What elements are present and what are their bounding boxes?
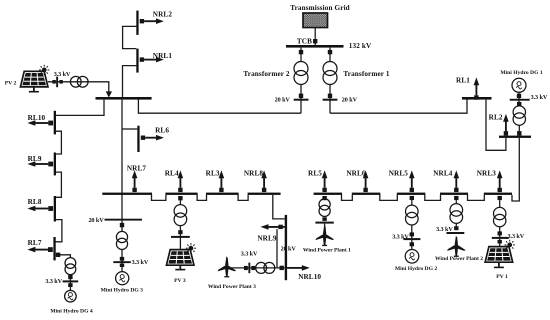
- feeder bus RL4: [165, 193, 197, 195]
- PV 1 stand: [498, 262, 500, 267]
- PV 2 sun: [39, 65, 49, 75]
- wire RL1 bus to RL2 bus: [486, 100, 506, 151]
- wire RL2 bus to NRL3 bus: [512, 138, 519, 201]
- svg-text:RL4: RL4: [165, 170, 179, 178]
- generator Mini Hydro DG 1: [512, 78, 526, 92]
- feeder wire T1 to RL1 bus: [330, 99, 467, 114]
- feeder bus RL3: [206, 193, 239, 195]
- load arrow NRL2: [140, 18, 164, 24]
- svg-text:PV 2: PV 2: [5, 80, 17, 86]
- feeder wire T2 to left main bus: [138, 99, 301, 114]
- svg-text:TCB: TCB: [297, 38, 312, 46]
- wire transformer 1 secondary: [329, 85, 331, 114]
- feeder bus NRL5: [397, 193, 426, 195]
- load arrow NRL7: [132, 170, 138, 192]
- svg-text:NRL9: NRL9: [257, 235, 277, 243]
- feeder bus NRL8: [248, 193, 281, 195]
- load arrow RL1: [474, 77, 480, 99]
- svg-text:RL5: RL5: [308, 170, 322, 178]
- wire PV3 transformer to panel: [179, 226, 181, 250]
- wire DG4 transformer to generator: [69, 275, 71, 291]
- transmission grid block: [303, 13, 328, 28]
- PV 2 stand: [33, 87, 35, 91]
- load arrow RL2: [503, 114, 509, 136]
- riser main bus to DG3: [121, 100, 123, 232]
- svg-text:3.3 kV: 3.3 kV: [54, 71, 71, 78]
- breaker DG4 3.3 kV: [63, 275, 79, 287]
- svg-text:RL8: RL8: [28, 198, 42, 206]
- transformer PV3: [174, 205, 187, 218]
- breaker on transformer 2 primary: [299, 50, 303, 54]
- svg-text:Mini Hydro DG 2: Mini Hydro DG 2: [395, 266, 438, 272]
- breaker DG1 3.3 kV: [510, 94, 530, 106]
- svg-text:NRL8: NRL8: [244, 170, 264, 178]
- bus RL1: [462, 97, 492, 100]
- svg-text:NRL6: NRL6: [346, 170, 366, 178]
- svg-text:20 kV: 20 kV: [275, 97, 291, 104]
- svg-text:RL7: RL7: [28, 239, 42, 247]
- transformer wind3: [256, 262, 267, 273]
- svg-text:Mini Hydro DG 3: Mini Hydro DG 3: [101, 287, 144, 293]
- bus NRL2: [136, 11, 138, 35]
- breaker DG1 at RL2 bus: [517, 131, 521, 135]
- wire grid to bus: [314, 28, 316, 46]
- wire DG2 transformer to generator: [411, 225, 413, 250]
- PV 2 panel: [20, 71, 48, 87]
- breaker wind2 top: [454, 196, 458, 200]
- wire RL5 bus to NRL6 bus: [342, 194, 353, 200]
- bus RL6: [137, 126, 139, 152]
- wire bus to transformer 1: [329, 48, 331, 62]
- wire RL4 bus to PV3 transformer: [179, 200, 181, 204]
- wire RL7 to DG4 transformer: [56, 255, 71, 258]
- breaker PV2 3.3 kV: [52, 77, 62, 88]
- wire NRL4 bus to NRL3 bus: [468, 194, 485, 200]
- load arrow RL9: [27, 161, 53, 167]
- svg-text:20 kV: 20 kV: [281, 246, 297, 253]
- transformer Wind Power Plant 1: [319, 199, 330, 210]
- generator Mini Hydro DG 4: [65, 290, 77, 302]
- svg-text:NRL5: NRL5: [389, 170, 409, 178]
- wire wind2: [455, 200, 457, 204]
- svg-text:Transformer 2: Transformer 2: [243, 70, 289, 78]
- svg-text:NRL4: NRL4: [433, 170, 453, 178]
- svg-text:RL2: RL2: [489, 113, 503, 121]
- 20 kV bar under transformer 1: [323, 99, 338, 101]
- generator Mini Hydro DG 3: [116, 272, 129, 285]
- infeed triangle at main bus: [106, 91, 112, 97]
- load arrow NRL6: [363, 170, 369, 192]
- load arrow NRL3: [497, 170, 503, 192]
- svg-text:3.3 kV: 3.3 kV: [241, 251, 258, 258]
- svg-text:NRL3: NRL3: [477, 170, 497, 178]
- PV 3 sun: [186, 243, 196, 253]
- 20 kV vertical bus: [285, 215, 287, 280]
- wire DG3 transformer to generator: [121, 250, 123, 272]
- svg-text:RL1: RL1: [456, 77, 470, 85]
- svg-text:PV 3: PV 3: [174, 278, 186, 284]
- wire PV1: [499, 200, 501, 208]
- transformer Wind Power Plant 2: [450, 204, 463, 217]
- wire PV2 to transformer: [48, 82, 109, 92]
- transformer DG3: [116, 231, 127, 242]
- load arrow RL5: [322, 170, 328, 192]
- breaker at 20kV bus wind3: [280, 266, 284, 270]
- wire RL8 to RL7: [55, 220, 62, 242]
- breaker DG2 3.3 kV: [403, 232, 420, 246]
- bus RL8: [54, 196, 56, 222]
- bus RL10: [54, 111, 56, 135]
- svg-text:Mini Hydro DG 4: Mini Hydro DG 4: [50, 308, 93, 314]
- svg-text:20 kV: 20 kV: [88, 217, 104, 224]
- svg-text:3.3 kV: 3.3 kV: [531, 94, 548, 101]
- breaker PV3 top: [178, 196, 182, 200]
- load arrow RL3: [219, 170, 225, 192]
- wire DG1 transformer to RL2 bus: [518, 125, 520, 135]
- breaker wind1 bottom: [315, 217, 333, 223]
- wire DG2: [411, 200, 413, 205]
- wire wind2 to transformer: [455, 223, 457, 226]
- svg-text:3.3 kV: 3.3 kV: [436, 226, 453, 233]
- load arrow NRL4: [454, 170, 460, 192]
- wire NRL2 to NRL1: [123, 26, 138, 48]
- wire transformer 2 secondary: [300, 85, 302, 114]
- transformer PV1: [494, 207, 506, 219]
- PV 1 sun: [505, 240, 515, 250]
- generator Mini Hydro DG 2: [405, 249, 419, 263]
- transformer T1: [323, 62, 337, 76]
- svg-text:3.3 kV: 3.3 kV: [45, 278, 62, 285]
- bus NRL1: [136, 49, 138, 73]
- svg-text:Transmission Grid: Transmission Grid: [290, 4, 350, 12]
- bus RL7: [53, 237, 55, 260]
- svg-text:3.3 kV: 3.3 kV: [132, 259, 149, 266]
- load arrow NRL10: [287, 265, 310, 271]
- wire wind1: [324, 224, 326, 228]
- transformer T2: [294, 62, 308, 76]
- wire RL4 bus to RL3 bus: [197, 194, 206, 200]
- breaker TCB: [313, 39, 317, 43]
- feeder bus RL5: [314, 193, 342, 195]
- breaker wind2 3.3 kV: [447, 226, 465, 234]
- transformer PV2: [70, 76, 81, 87]
- svg-text:RL9: RL9: [28, 155, 42, 163]
- bus RL9: [54, 153, 56, 176]
- wire NRL1 to main bus: [123, 66, 138, 98]
- breaker transformer 1 secondary: [328, 94, 332, 98]
- bus 132 kV: [286, 45, 344, 48]
- wire to RL6 bus: [122, 128, 137, 130]
- svg-text:20 kV: 20 kV: [342, 97, 358, 104]
- wire main bus to RL10 chain: [56, 100, 104, 116]
- svg-text:NRL2: NRL2: [153, 10, 173, 18]
- wire wind3 to 20kV bus: [229, 267, 285, 269]
- breaker DG2 top: [410, 196, 414, 200]
- wire PV1 transformer down: [499, 227, 501, 246]
- wire NRL9 junction down: [276, 229, 278, 268]
- load arrow RL6: [141, 135, 164, 141]
- svg-text:PV 1: PV 1: [496, 274, 508, 280]
- feeder bus NRL7: [102, 193, 152, 195]
- PV 3 panel: [166, 250, 194, 266]
- load arrow NRL8: [261, 170, 267, 192]
- svg-text:NRL1: NRL1: [153, 52, 173, 60]
- main left 20kV bus: [96, 97, 152, 100]
- wire NRL7 bus to RL4 bus: [152, 194, 166, 200]
- wire NRL8 bus to 20kV vertical bus: [273, 195, 285, 219]
- PV 3 stand: [179, 265, 181, 269]
- wire bus to transformer 2: [300, 48, 302, 62]
- wind turbine Wind Power Plant 3: [217, 256, 237, 277]
- 20 kV bar DG3: [105, 219, 143, 221]
- feeder bus NRL6: [352, 193, 381, 195]
- breaker DG3 3.3 kV: [113, 257, 131, 267]
- feeder bus NRL4: [440, 193, 468, 195]
- feeder bus NRL3: [484, 193, 512, 195]
- svg-text:132 kV: 132 kV: [349, 42, 372, 50]
- wire NRL5 bus to NRL4 bus: [425, 194, 441, 200]
- breaker PV1 3.3 kV: [492, 231, 509, 243]
- breaker wind3 3.3 kV: [244, 263, 255, 274]
- breaker DG4 branch: [56, 253, 60, 257]
- bus RL2: [499, 136, 531, 138]
- breaker PV1 top: [498, 196, 502, 200]
- breaker on transformer 1 primary: [328, 50, 332, 54]
- svg-text:3.3 kV: 3.3 kV: [508, 233, 525, 240]
- PV 1 panel: [485, 247, 513, 263]
- breaker PV3 bottom: [171, 230, 190, 238]
- transformer DG4: [65, 258, 76, 269]
- svg-text:RL6: RL6: [155, 127, 169, 135]
- load arrow NRL5: [409, 170, 415, 192]
- wind turbine Wind Power Plant 1: [315, 225, 335, 246]
- breaker transformer 2 secondary: [299, 94, 303, 98]
- wire RL9 to RL8: [56, 172, 61, 197]
- svg-text:3.3 kV: 3.3 kV: [392, 233, 409, 240]
- load arrow NRL9: [261, 224, 285, 230]
- transformer DG1: [513, 106, 525, 118]
- svg-text:RL10: RL10: [28, 114, 46, 122]
- wind turbine Wind Power Plant 2: [446, 236, 466, 257]
- svg-text:Mini Hydro DG 1: Mini Hydro DG 1: [500, 70, 543, 76]
- load arrow RL4: [178, 170, 184, 192]
- transformer DG2: [406, 205, 419, 218]
- wire NRL6 bus to NRL5 bus: [380, 194, 398, 200]
- load arrow RL7: [27, 247, 52, 253]
- load arrow NRL1: [140, 57, 164, 63]
- breaker wind1 top: [322, 196, 326, 200]
- svg-text:Wind Power Plant 3: Wind Power Plant 3: [208, 284, 256, 290]
- wire RL3 bus to NRL8 bus: [238, 194, 248, 200]
- svg-text:Wind Power Plant 1: Wind Power Plant 1: [303, 248, 351, 254]
- svg-text:NRL7: NRL7: [127, 165, 147, 173]
- wire RL10 to RL9: [56, 131, 61, 154]
- svg-text:NRL10: NRL10: [298, 273, 321, 281]
- 20 kV bar under transformer 2: [294, 99, 309, 101]
- breaker DG3: [120, 223, 124, 227]
- svg-text:Wind Power Plant 2: Wind Power Plant 2: [435, 256, 483, 262]
- svg-text:Transformer 1: Transformer 1: [343, 70, 389, 78]
- wire DG1 generator down: [518, 92, 520, 106]
- load arrow RL8: [27, 206, 53, 212]
- svg-text:RL3: RL3: [206, 170, 220, 178]
- load arrow RL10: [27, 120, 53, 126]
